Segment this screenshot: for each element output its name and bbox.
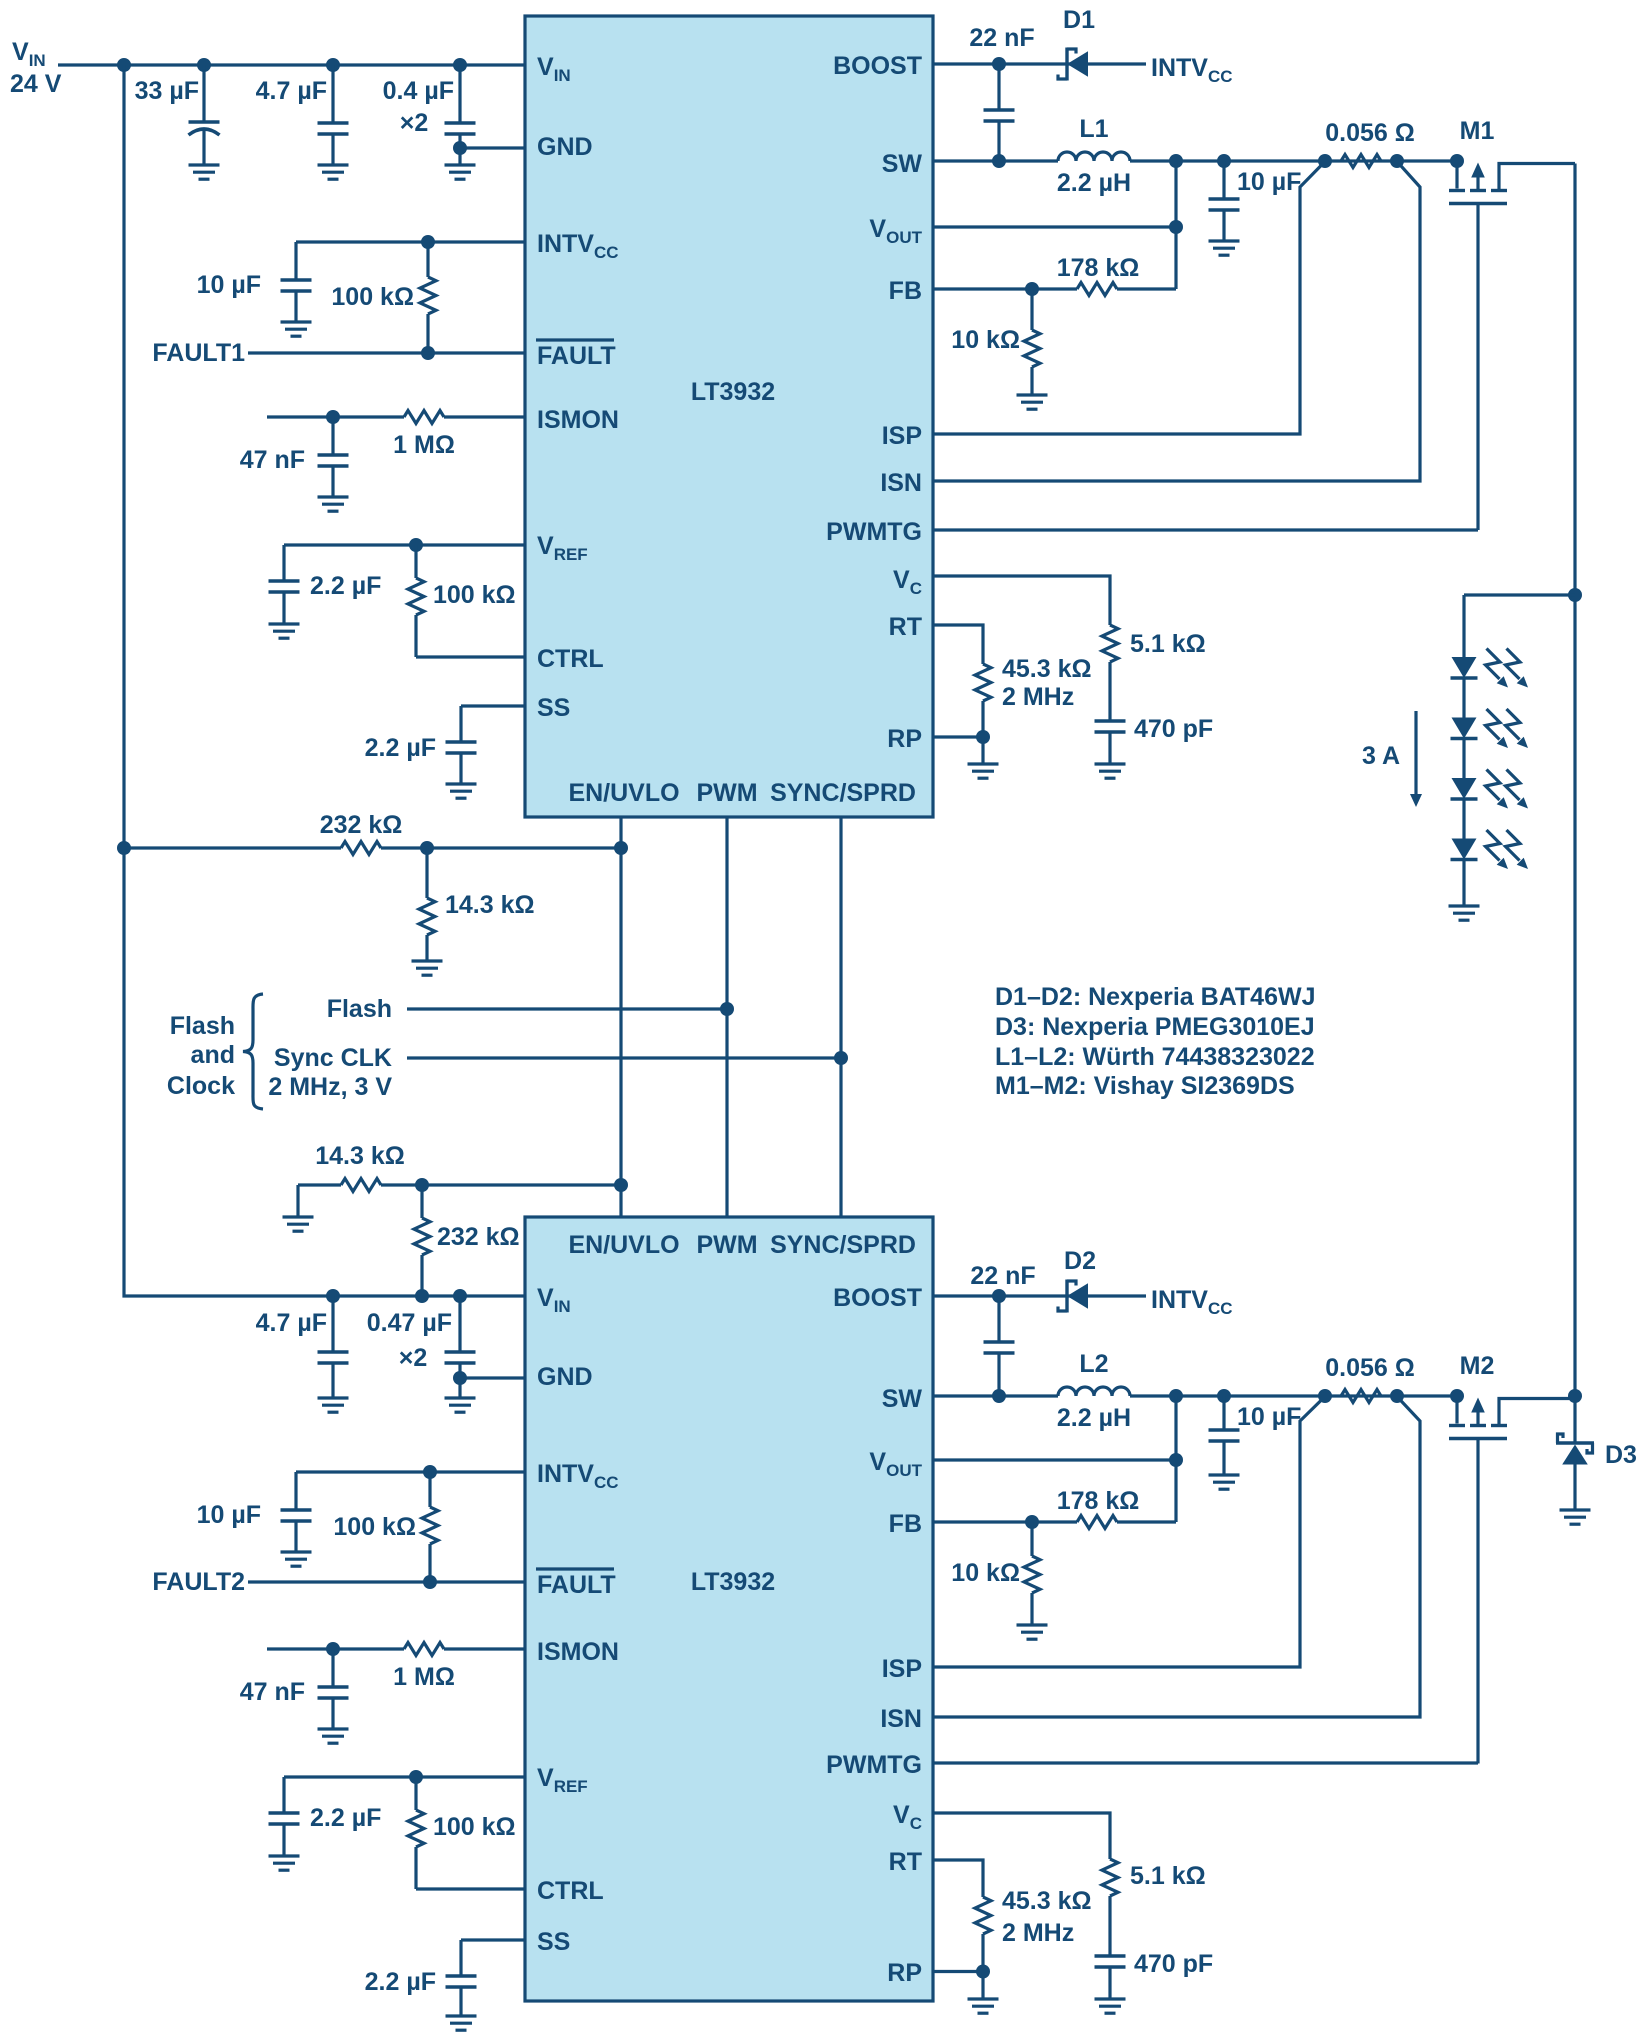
- svg-text:LT3932: LT3932: [691, 378, 775, 406]
- svg-text:D1: D1: [1063, 6, 1095, 34]
- capacitor C19 lead: [1108, 1967, 1111, 1999]
- ground for R10: [412, 961, 443, 975]
- junction ISMON at C5: [326, 410, 340, 424]
- capacitor C2 4.7uF lead: [331, 65, 334, 165]
- wire EN/UVLO shared vertical: [619, 817, 622, 1217]
- resistor R16 10k zigzag: [1024, 1556, 1040, 1593]
- svg-text:×2: ×2: [400, 109, 429, 137]
- svg-text:178 kΩ: 178 kΩ: [1057, 1487, 1140, 1515]
- ground for C4: [281, 322, 312, 336]
- capacitor C9 10uF plates: [1209, 199, 1240, 210]
- junction sense resistor right: [1390, 154, 1404, 168]
- wire M1 drain rail down to D3: [1573, 164, 1576, 1444]
- junction VREF2 at R15: [409, 1770, 423, 1784]
- ground for C11: [318, 1398, 349, 1412]
- resistor R20 bottom lead: [981, 1934, 984, 1972]
- wire Sync CLK to SYNC vertical: [407, 1056, 841, 1059]
- capacitor C7 2.2uF lead: [459, 706, 462, 784]
- resistor R4 10k zigzag: [1024, 330, 1040, 367]
- svg-text:LT3932: LT3932: [691, 1568, 775, 1596]
- IC U2 LT3932 body: [525, 1217, 933, 2001]
- svg-text:D2: D2: [1064, 1247, 1096, 1275]
- resistor R12 232k leads: [420, 1185, 423, 1296]
- junction SW2 at C18 tap: [1217, 1389, 1231, 1403]
- capacitor C12 0.47uF lead: [458, 1296, 461, 1398]
- svg-text:10 µF: 10 µF: [197, 271, 261, 299]
- junction VIN rail at 232k row: [117, 841, 131, 855]
- capacitor C18 10uF lead: [1222, 1396, 1225, 1475]
- svg-text:0.4 µF: 0.4 µF: [383, 77, 454, 105]
- wire U1 VOUT: [933, 225, 1176, 228]
- svg-text:PWMTG: PWMTG: [826, 1751, 922, 1779]
- ground for C19: [1095, 1999, 1126, 2013]
- ground for D3: [1560, 1510, 1591, 1524]
- junction 14.3k row at R12: [415, 1178, 429, 1192]
- junction FB at R4: [1025, 282, 1039, 296]
- capacitor C4 10uF plates: [281, 280, 312, 291]
- junction SW after L1 (VOUT tap): [1169, 154, 1183, 168]
- junction SW at M1 source: [1450, 154, 1464, 168]
- svg-text:EN/UVLO: EN/UVLO: [568, 779, 679, 807]
- svg-text:4.7 µF: 4.7 µF: [256, 77, 327, 105]
- svg-text:2.2 µF: 2.2 µF: [310, 572, 381, 600]
- svg-text:100 kΩ: 100 kΩ: [433, 1813, 516, 1841]
- junction VOUT: [1169, 220, 1183, 234]
- svg-text:and: and: [191, 1041, 235, 1069]
- svg-text:ISN: ISN: [880, 1705, 922, 1733]
- capacitor C17 22nF lead: [997, 1296, 1000, 1396]
- svg-text:1 MΩ: 1 MΩ: [393, 1663, 455, 1691]
- svg-text:2.2 µF: 2.2 µF: [310, 1804, 381, 1832]
- wire U1 VREF: [284, 543, 525, 546]
- svg-text:Sync CLK: Sync CLK: [274, 1044, 392, 1072]
- svg-text:L1–L2: Würth 74438323022: L1–L2: Würth 74438323022: [995, 1043, 1315, 1071]
- wire C3 to U1 GND pin: [460, 146, 525, 149]
- ground for RP2: [968, 1999, 999, 2013]
- junction SYNC at Sync CLK line: [834, 1051, 848, 1065]
- capacitor C6 2.2uF lead: [282, 545, 285, 624]
- ground for R16: [1017, 1625, 1048, 1639]
- resistor R3 100k leads: [414, 545, 417, 657]
- capacitor C15 2.2uF lead: [282, 1777, 285, 1856]
- LED D4: [1451, 649, 1529, 688]
- junction SW2 after L2 (VOUT tap): [1169, 1389, 1183, 1403]
- resistor R4 10k leads: [1030, 289, 1033, 395]
- wire VIN left rail down to U2: [124, 65, 525, 1296]
- svg-text:232 kΩ: 232 kΩ: [437, 1223, 520, 1251]
- wire D3 cathode-anode segments: [1573, 1464, 1576, 1510]
- resistor R15 100k zigzag: [408, 1810, 424, 1847]
- capacitor C4 10uF lead: [294, 242, 297, 322]
- capacitor C7 2.2uF plates: [446, 742, 477, 753]
- wire LED string segments: [1462, 595, 1465, 906]
- wire R3 to U1 CTRL: [416, 655, 525, 658]
- resistor R6 0.056 Ohm zigzag: [1341, 155, 1381, 168]
- junction VREF at R3: [409, 538, 423, 552]
- svg-text:100 kΩ: 100 kΩ: [433, 581, 516, 609]
- wire VOUT2 tap vertical: [1174, 1396, 1177, 1522]
- ground for C9: [1209, 241, 1240, 255]
- svg-text:SYNC/SPRD: SYNC/SPRD: [770, 1231, 916, 1259]
- junction on VIN rail at C2: [326, 58, 340, 72]
- junction on VIN rail at C1: [197, 58, 211, 72]
- resistor R11 14.3k zigzag: [341, 1179, 381, 1192]
- junction SW at C8 bottom: [992, 154, 1006, 168]
- svg-text:24 V: 24 V: [10, 70, 62, 98]
- svg-text:2.2 µH: 2.2 µH: [1057, 1404, 1131, 1432]
- svg-text:2 MHz: 2 MHz: [1002, 683, 1074, 711]
- svg-text:10 kΩ: 10 kΩ: [951, 326, 1020, 354]
- svg-text:BOOST: BOOST: [833, 52, 922, 80]
- capacitor C16 2.2uF plates: [446, 1976, 477, 1987]
- svg-text:CTRL: CTRL: [537, 645, 604, 673]
- junction on VIN rail at C3: [453, 58, 467, 72]
- svg-text:2 MHz: 2 MHz: [1002, 1919, 1074, 1947]
- capacitor C15 2.2uF plates: [269, 1813, 300, 1824]
- svg-text:FAULT: FAULT: [537, 342, 616, 370]
- svg-text:INTVCC: INTVCC: [1151, 54, 1233, 86]
- ground for C18: [1209, 1475, 1240, 1489]
- wire R15 to U2 CTRL: [416, 1887, 525, 1890]
- junction VIN2 at R12 bottom: [415, 1289, 429, 1303]
- svg-text:100 kΩ: 100 kΩ: [331, 283, 414, 311]
- LED D6: [1451, 770, 1529, 809]
- ground for R4: [1017, 395, 1048, 409]
- svg-text:VIN: VIN: [12, 38, 46, 70]
- svg-text:10 µF: 10 µF: [197, 1501, 261, 1529]
- wire RP2 to ground: [981, 1972, 984, 2000]
- capacitor C12 0.47uF plates: [445, 1352, 476, 1363]
- resistor R13 100k leads: [428, 1472, 431, 1582]
- svg-text:FAULT1: FAULT1: [152, 339, 245, 367]
- capacitor C13 10uF plates: [281, 1510, 312, 1521]
- svg-text:14.3 kΩ: 14.3 kΩ: [315, 1142, 405, 1170]
- junction VIN2 at C12: [453, 1289, 467, 1303]
- svg-text:INTVCC: INTVCC: [1151, 1286, 1233, 1318]
- junction LED string top: [1568, 588, 1582, 602]
- resistor R3 100k zigzag: [408, 578, 424, 615]
- svg-text:GND: GND: [537, 1363, 593, 1391]
- svg-text:ISMON: ISMON: [537, 406, 619, 434]
- wire U2 VC: [933, 1813, 1110, 1859]
- svg-text:L1: L1: [1079, 115, 1108, 143]
- junction R1 bottom on FAULT wire: [421, 346, 435, 360]
- LED current arrow 3 A: [1414, 711, 1417, 795]
- capacitor C11 4.7uF lead: [331, 1296, 334, 1398]
- wire U2 BOOST to D2: [933, 1294, 1146, 1297]
- ground for C1: [189, 165, 220, 179]
- svg-text:FAULT: FAULT: [537, 1571, 616, 1599]
- capacitor C8 22nF lead: [997, 64, 1000, 161]
- resistor R1 100k zigzag: [420, 277, 436, 314]
- svg-text:22 nF: 22 nF: [970, 1262, 1035, 1290]
- svg-text:47 nF: 47 nF: [240, 1678, 305, 1706]
- capacitor C1 33uF plates (polarized): [189, 122, 220, 135]
- svg-text:SW: SW: [882, 1385, 923, 1413]
- capacitor C3 0.4uF x2 lead: [458, 65, 461, 165]
- wire U1 RT: [933, 625, 983, 664]
- wire U1 ISMON left segment: [267, 415, 404, 418]
- svg-text:100 kΩ: 100 kΩ: [333, 1513, 416, 1541]
- resistor R19 5.1k zigzag: [1102, 1859, 1118, 1896]
- svg-text:PWM: PWM: [696, 1231, 757, 1259]
- diode D2 schottky: [1058, 1280, 1088, 1313]
- resistor R8 bottom lead: [981, 701, 984, 737]
- svg-text:D3: D3: [1605, 1441, 1637, 1469]
- wire U2 PWMTG to M2 gate: [933, 1761, 1478, 1764]
- junction RP at R8: [976, 730, 990, 744]
- svg-text:22 nF: 22 nF: [969, 24, 1034, 52]
- capacitor C5 47nF plates: [318, 455, 349, 466]
- capacitor C1 33uF lead: [202, 65, 205, 165]
- wire U2 ISP to sense+: [933, 1397, 1325, 1668]
- svg-text:GND: GND: [537, 133, 593, 161]
- transistor M2 MOSFET: [1449, 1397, 1575, 1764]
- transistor M1 MOSFET: [1449, 162, 1575, 531]
- resistor R18 0.056 Ohm zigzag: [1341, 1390, 1381, 1403]
- wire U1 SS: [461, 704, 525, 707]
- ground for C5: [318, 497, 349, 511]
- wire U1 ISMON right segment: [444, 415, 525, 418]
- wire FAULT1 to U1: [248, 351, 525, 354]
- junction INTVCC at R1: [421, 235, 435, 249]
- svg-text:3 A: 3 A: [1362, 742, 1400, 770]
- svg-text:232 kΩ: 232 kΩ: [320, 811, 403, 839]
- wire Flash to PWM vertical: [407, 1007, 727, 1010]
- junction R13 bottom on FAULT2 wire: [423, 1575, 437, 1589]
- capacitor C3 0.4uF plates: [445, 123, 476, 134]
- wire R19 to C19: [1108, 1896, 1111, 1956]
- svg-text:FB: FB: [889, 1510, 922, 1538]
- svg-text:Flash: Flash: [170, 1012, 235, 1040]
- wire U2 VREF: [284, 1775, 525, 1778]
- wire U2 VOUT: [933, 1458, 1176, 1461]
- ground for C10: [1095, 764, 1126, 778]
- resistor R20 45.3k zigzag: [975, 1897, 991, 1934]
- junction 232k row at R10: [420, 841, 434, 855]
- capacitor C17 22nF plates: [984, 1342, 1015, 1353]
- svg-text:FAULT2: FAULT2: [152, 1568, 245, 1596]
- wire U2 INTVCC: [296, 1470, 525, 1473]
- junction C12 to U2 GND: [453, 1371, 467, 1385]
- LED D7: [1451, 830, 1529, 869]
- svg-text:33 µF: 33 µF: [135, 77, 199, 105]
- svg-text:10 µF: 10 µF: [1237, 1403, 1301, 1431]
- capacitor C9 10uF lead: [1222, 161, 1225, 241]
- junction sense2 resistor right: [1390, 1389, 1404, 1403]
- capacitor C6 2.2uF plates: [269, 581, 300, 592]
- resistor R5 178k zigzag: [1077, 283, 1117, 296]
- svg-text:D1–D2: Nexperia BAT46WJ: D1–D2: Nexperia BAT46WJ: [995, 983, 1315, 1011]
- resistor R9 232k zigzag: [341, 842, 381, 855]
- svg-text:470 pF: 470 pF: [1134, 1950, 1213, 1978]
- wire PWM shared vertical: [725, 817, 728, 1217]
- wire 14.3k row right: [381, 1183, 621, 1186]
- svg-text:0.47 µF: 0.47 µF: [367, 1309, 452, 1337]
- svg-text:SW: SW: [882, 150, 923, 178]
- svg-text:2.2 µF: 2.2 µF: [365, 1968, 436, 1996]
- svg-text:10 µF: 10 µF: [1237, 168, 1301, 196]
- ground for C16: [446, 2016, 477, 2030]
- wire RP to ground: [981, 737, 984, 764]
- junction C3 to GND pin: [453, 141, 467, 155]
- capacitor C11 4.7uF plates: [318, 1352, 349, 1363]
- wire 178k to VOUT2 tap: [1117, 1520, 1176, 1523]
- svg-text:ISP: ISP: [882, 1655, 922, 1683]
- junction RP2 at R20: [976, 1965, 990, 1979]
- resistor R14 1M zigzag: [404, 1643, 444, 1656]
- svg-text:14.3 kΩ: 14.3 kΩ: [445, 891, 535, 919]
- wire 232k row left: [124, 846, 341, 849]
- svg-text:0.056 Ω: 0.056 Ω: [1325, 1354, 1415, 1382]
- wire U1 SW to M1: [933, 159, 1457, 162]
- wire 14.3k row left to ground: [298, 1185, 341, 1217]
- svg-text:Flash: Flash: [327, 995, 392, 1023]
- ground for C13: [281, 1552, 312, 1566]
- svg-text:SYNC/SPRD: SYNC/SPRD: [770, 779, 916, 807]
- wire U2 ISMON right segment: [444, 1647, 525, 1650]
- svg-text:178 kΩ: 178 kΩ: [1057, 254, 1140, 282]
- capacitor C10 470pF plates: [1095, 721, 1126, 732]
- junction ISMON2 at C14: [326, 1642, 340, 1656]
- capacitor C14 47nF plates: [318, 1687, 349, 1698]
- junction on VIN rail at left rail: [117, 58, 131, 72]
- capacitor C10 lead: [1108, 732, 1111, 764]
- junction SW2 at C17 bottom: [992, 1389, 1006, 1403]
- svg-text:D3: Nexperia PMEG3010EJ: D3: Nexperia PMEG3010EJ: [995, 1013, 1315, 1041]
- wire U2 RT: [933, 1860, 983, 1897]
- diode D1 schottky: [1058, 48, 1088, 81]
- wire LED string top: [1464, 593, 1575, 596]
- wire 178k to VOUT tap: [1117, 287, 1176, 290]
- capacitor C13 10uF lead: [294, 1472, 297, 1552]
- capacitor C19 470pF plates: [1095, 1956, 1126, 1967]
- ground for RP: [968, 764, 999, 778]
- junction EN/UVLO at 232k row: [614, 841, 628, 855]
- svg-text:M1: M1: [1460, 117, 1495, 145]
- svg-text:M2: M2: [1460, 1352, 1495, 1380]
- wire U1 FB: [933, 287, 1077, 290]
- brace for Flash and Clock: [243, 994, 263, 1109]
- ground for LED string: [1449, 906, 1480, 920]
- ground for C3: [445, 165, 476, 179]
- junction PWM at Flash line: [720, 1002, 734, 1016]
- wire FAULT2 to U2: [248, 1580, 525, 1583]
- svg-text:SS: SS: [537, 1928, 570, 1956]
- svg-text:ISMON: ISMON: [537, 1638, 619, 1666]
- LED D5: [1451, 709, 1529, 748]
- svg-text:ISP: ISP: [882, 422, 922, 450]
- ground for R11: [283, 1217, 314, 1231]
- svg-text:ISN: ISN: [880, 469, 922, 497]
- wire U1 INTVCC: [296, 240, 525, 243]
- resistor R7 5.1k zigzag: [1102, 625, 1118, 662]
- diode D3 schottky to ground: [1556, 1434, 1594, 1465]
- svg-text:2 MHz, 3 V: 2 MHz, 3 V: [268, 1073, 392, 1101]
- svg-text:×2: ×2: [399, 1344, 428, 1372]
- resistor R8 45.3k zigzag: [975, 664, 991, 701]
- resistor R13 100k zigzag: [422, 1507, 438, 1544]
- svg-text:1 MΩ: 1 MΩ: [393, 431, 455, 459]
- wire U1 ISP to sense+: [933, 162, 1325, 435]
- svg-text:0.056 Ω: 0.056 Ω: [1325, 119, 1415, 147]
- svg-text:RP: RP: [887, 725, 922, 753]
- svg-text:M1–M2: Vishay SI2369DS: M1–M2: Vishay SI2369DS: [995, 1072, 1295, 1100]
- wire U1 ISN to sense-: [933, 162, 1420, 482]
- svg-text:L2: L2: [1079, 1350, 1108, 1378]
- wire U2 RP: [933, 1970, 983, 1973]
- junction BOOST2 at C17: [992, 1289, 1006, 1303]
- wire VOUT tap vertical: [1174, 161, 1177, 289]
- capacitor C18 10uF plates: [1209, 1430, 1240, 1441]
- resistor R2 1M zigzag: [404, 411, 444, 424]
- svg-text:EN/UVLO: EN/UVLO: [568, 1231, 679, 1259]
- svg-text:PWMTG: PWMTG: [826, 518, 922, 546]
- wire U1 BOOST to D1: [933, 62, 1146, 65]
- inductor L2: [1058, 1387, 1130, 1396]
- svg-text:CTRL: CTRL: [537, 1877, 604, 1905]
- junction sense2 resistor left: [1318, 1389, 1332, 1403]
- svg-text:4.7 µF: 4.7 µF: [256, 1309, 327, 1337]
- inductor L1: [1058, 152, 1130, 161]
- junction sense resistor left: [1318, 154, 1332, 168]
- resistor R1 100k leads: [426, 242, 429, 353]
- svg-text:2.2 µH: 2.2 µH: [1057, 169, 1131, 197]
- resistor R15 100k leads: [414, 1777, 417, 1889]
- wire 232k row right: [381, 846, 621, 849]
- junction INTVCC2 at R13: [423, 1465, 437, 1479]
- junction SW at C9 tap: [1217, 154, 1231, 168]
- svg-text:5.1 kΩ: 5.1 kΩ: [1130, 1862, 1206, 1890]
- wire U2 ISN to sense-: [933, 1397, 1420, 1718]
- svg-text:Clock: Clock: [167, 1072, 235, 1100]
- junction VOUT2: [1169, 1453, 1183, 1467]
- svg-text:RT: RT: [889, 1848, 922, 1876]
- capacitor C16 2.2uF lead: [459, 1940, 462, 2016]
- wire U1 PWMTG to M1 gate: [933, 528, 1478, 531]
- resistor R17 178k zigzag: [1077, 1516, 1117, 1529]
- resistor R10 14.3k zigzag: [419, 898, 435, 935]
- svg-text:FB: FB: [889, 277, 922, 305]
- junction SW2 at M2 source: [1450, 1389, 1464, 1403]
- resistor R16 10k leads: [1030, 1522, 1033, 1625]
- wire VIN top rail: [58, 63, 525, 66]
- capacitor C8 22nF plates: [984, 110, 1015, 121]
- svg-text:47 nF: 47 nF: [240, 446, 305, 474]
- wire U1 VC: [933, 576, 1110, 625]
- ground for C12: [445, 1398, 476, 1412]
- capacitor C14 47nF lead: [331, 1649, 334, 1729]
- svg-text:10 kΩ: 10 kΩ: [951, 1559, 1020, 1587]
- svg-text:SS: SS: [537, 694, 570, 722]
- wire U1 RP: [933, 735, 983, 738]
- svg-text:BOOST: BOOST: [833, 1284, 922, 1312]
- junction BOOST at C8: [992, 57, 1006, 71]
- svg-text:470 pF: 470 pF: [1134, 715, 1213, 743]
- junction FB2 at R16: [1025, 1515, 1039, 1529]
- wire U2 SW to M2: [933, 1394, 1457, 1397]
- junction rail at M2 drain: [1568, 1389, 1582, 1403]
- resistor R10 14.3k leads: [425, 848, 428, 961]
- wire R7 to C10: [1108, 662, 1111, 721]
- svg-text:2.2 µF: 2.2 µF: [365, 734, 436, 762]
- junction EN/UVLO at 14.3k row: [614, 1178, 628, 1192]
- svg-text:RP: RP: [887, 1959, 922, 1987]
- svg-text:45.3 kΩ: 45.3 kΩ: [1002, 1887, 1092, 1915]
- junction VIN2 at C11: [326, 1289, 340, 1303]
- capacitor C5 47nF lead: [331, 417, 334, 497]
- svg-text:5.1 kΩ: 5.1 kΩ: [1130, 630, 1206, 658]
